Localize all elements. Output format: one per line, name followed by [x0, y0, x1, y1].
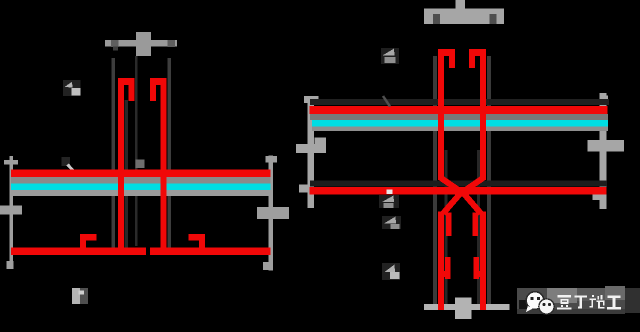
wall outline right face (dark gray)	[168, 58, 172, 248]
lower wall bar right (red vertical)	[480, 212, 486, 311]
watermark backdrop mosaic	[517, 286, 640, 314]
watermark logo: big bean tail	[526, 306, 533, 312]
upper bar right hook: down stub	[469, 56, 475, 69]
wall bottom break: centerline block	[455, 298, 472, 320]
bar cross diagonal lower-right	[462, 192, 481, 214]
bottom label glyph light notch	[79, 291, 85, 295]
watermark text glyph SHI	[590, 295, 605, 309]
dim line right: top tick	[600, 96, 609, 106]
upper wall bar right (red)	[480, 49, 486, 180]
watermark logo: small bean eyes	[543, 303, 546, 306]
wall bar left hook: top horizontal	[118, 78, 135, 85]
label glyph upper-left light wedge	[65, 82, 73, 88]
wall outline left face (dark gray)	[112, 58, 116, 248]
slab top rebar (red horizontal)	[310, 106, 608, 114]
dim line left: middle cross tick	[296, 144, 326, 153]
bar cross diagonal upper-right	[462, 178, 483, 193]
upper bar left hook: top horizontal	[438, 49, 455, 56]
dim text column: cluster 3 glyph a	[384, 217, 396, 224]
wall inner ghost line left	[445, 150, 448, 304]
slab edge line left (gray) vertical	[10, 156, 14, 269]
anchorage stub upper-right (red)	[473, 213, 479, 237]
dim text column: cluster 1 glyph a	[383, 49, 395, 56]
dim text column: cluster 2 dark bg	[379, 195, 399, 208]
dim text column: cluster 4 dark bg	[382, 263, 400, 280]
bottom bar hook left: horizontal foot	[80, 234, 97, 241]
bottom bar hook left: vertical stub	[80, 234, 86, 250]
dim text column: white dot on lower bar	[387, 190, 393, 195]
lap hook lower-right: foot to main bar	[474, 271, 485, 277]
anchorage stub upper-left (red)	[446, 213, 452, 237]
dim line right: bottom blob	[593, 193, 600, 200]
wall outline right face (dark gray)	[487, 56, 491, 304]
slab cyan line	[11, 184, 271, 191]
dim line left: upper-right bump	[315, 138, 327, 145]
bar cross diagonal upper-left	[441, 178, 462, 193]
leader arrow stroke (light)	[68, 165, 76, 173]
bottom bar hook right: vertical stub	[199, 234, 205, 250]
lap hook lower-left: foot to main bar	[440, 271, 451, 277]
slab edge left: bottom end blob	[7, 261, 14, 269]
slab lower gray line	[11, 190, 271, 196]
watermark text glyph GONG (work)	[607, 296, 621, 310]
slab lower gray line	[312, 127, 608, 132]
slab top rebar (red horizontal)	[11, 170, 271, 178]
dim line left: top tick	[304, 96, 319, 103]
dim line left of right diagram (gray vertical)	[308, 97, 315, 208]
wall vertical rebar right (red)	[161, 78, 167, 255]
lap hook lower-left: vertical stub	[445, 257, 451, 279]
slab edge left: middle cross tick	[0, 206, 22, 215]
dim band dark mark right	[490, 14, 497, 24]
dim annotation top (right diagram): centerline stub above band	[456, 0, 466, 9]
wall outline left face (dark gray)	[433, 56, 437, 304]
wall centerline (very dark)	[135, 56, 138, 246]
slab edge right: bottom end blob	[263, 262, 270, 270]
watermark logo: big bean eyes	[530, 297, 533, 300]
dim line right of right diagram (gray vertical)	[600, 93, 607, 209]
upper bar left hook: down stub	[449, 56, 455, 69]
upper bar right hook: top horizontal	[469, 49, 486, 56]
wall bar ghost line (inner, dim)	[124, 100, 128, 248]
dim text column: cluster 3 dark bg	[382, 216, 401, 229]
dim tick left (dark)	[111, 40, 119, 47]
bar cross diagonal lower-left	[443, 192, 462, 214]
dim tick notch below-left	[113, 47, 118, 51]
dim text column: cluster 3 glyph b	[391, 224, 400, 229]
slab edge left: top tick	[4, 160, 18, 165]
wall bar right hook: down stub	[150, 84, 156, 101]
dim tick right (dark)	[168, 40, 176, 47]
lap hook lower-right: vertical stub	[474, 257, 480, 279]
bottom label glyph dark block	[80, 288, 88, 304]
wall bar left hook: down stub	[129, 84, 135, 101]
slab bottom rebar right segment (red)	[150, 248, 271, 256]
dim text column: cluster 4 glyph a	[385, 265, 396, 273]
slab edge right: top tick	[266, 156, 278, 163]
center small label blob on slab line	[136, 160, 145, 169]
bottom label glyph (blurred char) light block	[72, 288, 80, 304]
wall inner ghost line right	[477, 150, 480, 304]
dim text column: leader arrow	[383, 96, 390, 107]
lower wall bar left (red vertical)	[438, 212, 444, 311]
label glyph upper-left (blurred char) dark background	[63, 80, 81, 96]
watermark logo: big bean face	[526, 292, 544, 310]
slab edge line right (gray) vertical	[269, 156, 274, 271]
leader arrow dark blob	[62, 157, 71, 166]
dim band dark mark left	[433, 14, 440, 24]
watermark text glyph DING	[575, 296, 588, 309]
watermark text glyph DOU (bean)	[557, 295, 572, 309]
slab soffit outline (dark line)	[310, 181, 607, 187]
dim annotation top: center text block	[136, 32, 151, 56]
dim annotation top band (blurred text)	[424, 9, 504, 25]
slab mid gray line (under top bar)	[11, 177, 271, 184]
wall vertical rebar left (red)	[118, 78, 124, 255]
slab cyan line	[312, 120, 608, 127]
slab bottom rebar left segment (red)	[11, 248, 146, 256]
wall bar right hook: top horizontal	[150, 78, 167, 85]
wall bottom break line (gray bar)	[424, 304, 510, 310]
dim text column: cluster 2 glyph a	[382, 196, 394, 203]
watermark logo: small bean face	[539, 299, 554, 314]
slab bottom rebar (red horizontal)	[310, 187, 607, 195]
dim line right: middle cross tick	[588, 140, 625, 152]
upper wall bar left (red)	[438, 49, 444, 180]
slab edge right: middle cross tick	[257, 207, 289, 219]
dim text column: cluster 2 glyph b	[384, 203, 394, 208]
dim annotation top (left diagram): horizontal dimension bar	[105, 40, 177, 47]
dim text column: cluster 1 dark bg	[381, 48, 399, 64]
dim text column: cluster 4 glyph b	[390, 272, 400, 279]
slab mid gray line	[310, 114, 608, 120]
dim text column: cluster 1 glyph b	[385, 57, 396, 63]
label glyph upper-left light square	[72, 88, 81, 96]
slab top outline (dark line to right edge)	[310, 99, 609, 105]
dim line left: bottom blob	[299, 185, 308, 193]
bottom bar hook right: horizontal foot	[189, 234, 206, 241]
